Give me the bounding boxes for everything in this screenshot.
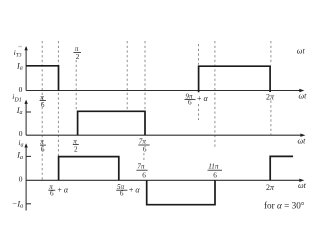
svg-text:2: 2 (74, 145, 78, 153)
svg-text:ωt: ωt (298, 136, 307, 145)
svg-text:0: 0 (19, 129, 23, 138)
svg-text:6: 6 (50, 190, 54, 198)
svg-text:6: 6 (142, 171, 146, 179)
svg-text:iT3: iT3 (14, 48, 22, 58)
svg-text:6: 6 (213, 171, 217, 179)
svg-text:π: π (73, 137, 77, 145)
svg-text:+ α: + α (57, 185, 69, 194)
svg-text:Ia: Ia (16, 106, 23, 116)
svg-text:π: π (75, 45, 79, 53)
svg-text:6: 6 (41, 146, 45, 154)
svg-text:+ α: + α (197, 94, 209, 103)
svg-text:ωt: ωt (299, 92, 308, 101)
svg-text:ia: ia (18, 138, 23, 148)
svg-text:+ α: + α (129, 185, 141, 194)
svg-text:ωt: ωt (298, 181, 307, 190)
svg-text:Ia: Ia (16, 151, 23, 161)
svg-text:6: 6 (41, 101, 45, 109)
svg-text:11π: 11π (208, 163, 219, 171)
svg-text:6: 6 (188, 99, 192, 107)
svg-text:6: 6 (120, 190, 124, 198)
svg-text:ωt: ωt (297, 46, 306, 55)
svg-text:0: 0 (19, 175, 23, 184)
svg-text:−Ia: −Ia (12, 199, 23, 209)
svg-text:Ia: Ia (16, 61, 23, 71)
svg-text:7π: 7π (137, 163, 145, 171)
svg-text:6: 6 (143, 146, 147, 154)
svg-text:for α = 30°: for α = 30° (264, 201, 305, 211)
svg-text:2: 2 (76, 53, 80, 61)
svg-text:2π: 2π (266, 183, 275, 192)
svg-text:7π: 7π (139, 138, 147, 146)
svg-text:2π: 2π (266, 92, 275, 101)
svg-text:0: 0 (19, 85, 23, 94)
